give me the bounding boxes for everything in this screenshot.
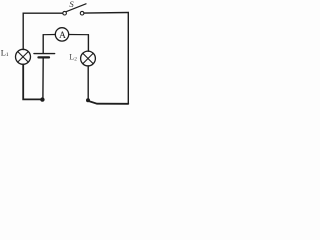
wire bottom-left segment bbox=[23, 64, 42, 99]
svg-text:L1: L1 bbox=[1, 49, 9, 59]
battery long plate bbox=[34, 53, 55, 55]
wire ammeter left bbox=[43, 34, 55, 36]
wire battery bottom stem bbox=[42, 58, 44, 99]
wire L2 upper stem bbox=[87, 35, 89, 52]
junction dot bottom of battery branch bbox=[40, 97, 44, 101]
wire ammeter right bbox=[69, 34, 89, 36]
svg-text:A: A bbox=[59, 30, 66, 41]
wire battery top stem bbox=[42, 35, 44, 54]
svg-text:L2: L2 bbox=[69, 53, 77, 63]
lamp L2 bbox=[81, 51, 96, 66]
battery cell bbox=[34, 54, 55, 58]
lamp L1 bbox=[16, 49, 31, 64]
ammeter A bbox=[55, 28, 68, 42]
wire right side bbox=[127, 13, 129, 104]
switch S bbox=[63, 4, 86, 15]
battery short plate bbox=[39, 56, 50, 58]
svg-text:S: S bbox=[69, 0, 74, 9]
wire L2 lower stem bbox=[87, 66, 89, 101]
wire bottom-right segment bbox=[88, 101, 128, 104]
wire top-right segment bbox=[84, 12, 128, 15]
wire top-left segment bbox=[23, 13, 62, 49]
junction dot bottom of L2 branch bbox=[86, 98, 90, 102]
